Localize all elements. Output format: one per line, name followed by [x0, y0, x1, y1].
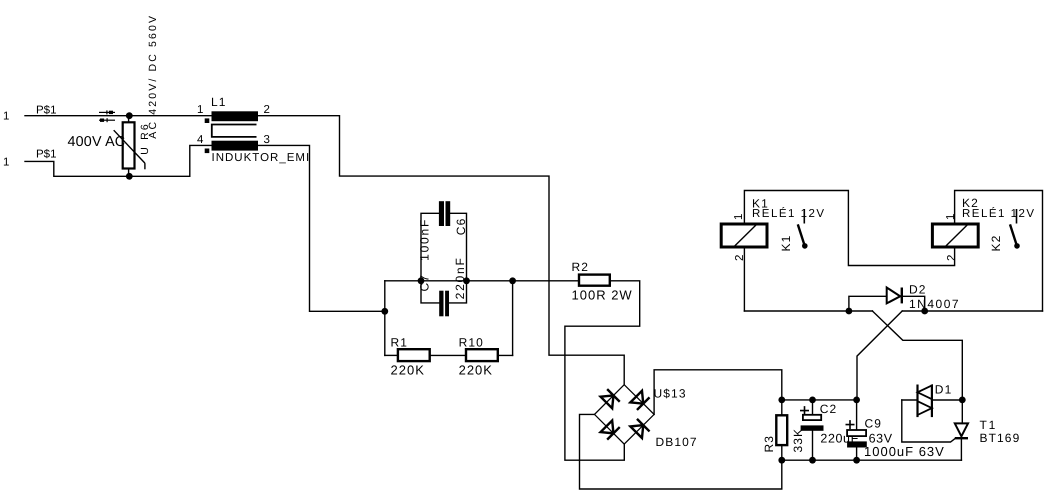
svg-text:400V AC: 400V AC [68, 134, 126, 150]
svg-text:C9: C9 [865, 416, 883, 430]
resistor R3 [776, 415, 787, 445]
junction T1 anode [959, 397, 966, 404]
wire K1 pin2 rail [744, 310, 872, 312]
switch contact K2 [1010, 209, 1020, 249]
svg-text:100R 2W: 100R 2W [572, 288, 633, 303]
connector arrows input1 [99, 110, 115, 122]
wire R1 R10 row [385, 354, 398, 356]
wire node A vertical [384, 281, 386, 356]
junction C2 bottom [809, 457, 816, 464]
bridge U$13 diamond [595, 385, 655, 444]
thyristor T1 [955, 423, 968, 438]
capacitor C2 [800, 406, 824, 431]
svg-text:1N4007: 1N4007 [909, 297, 960, 311]
junction varistor top [126, 112, 133, 119]
svg-text:RELÉ1 12V: RELÉ1 12V [752, 207, 826, 220]
wire DC+ rail [782, 399, 857, 401]
junction R3 top [778, 397, 785, 404]
wire T1 cathode [960, 439, 962, 460]
wire cap box loop [421, 213, 439, 280]
svg-text:R2: R2 [572, 260, 590, 274]
junction R10 right [509, 277, 516, 284]
svg-text:2: 2 [946, 255, 958, 261]
wire R3 leads [781, 400, 783, 415]
junction C9 bottom [853, 457, 860, 464]
junction C2 top [809, 397, 816, 404]
svg-text:33K: 33K [791, 428, 805, 453]
svg-text:U$13: U$13 [654, 387, 687, 401]
svg-text:K1: K1 [779, 235, 793, 252]
wire K2 side rail [902, 310, 1042, 312]
svg-text:R1: R1 [391, 335, 409, 349]
svg-text:2: 2 [264, 104, 270, 116]
wire capacitor bus [385, 280, 579, 282]
wire K1 pin2 [743, 247, 745, 311]
svg-text:K2: K2 [989, 235, 1003, 252]
svg-text:100nF: 100nF [417, 218, 431, 261]
svg-text:L1: L1 [211, 95, 227, 109]
junction cap box left [418, 277, 425, 284]
wire diagonal B [857, 311, 902, 400]
svg-text:D1: D1 [935, 382, 953, 396]
junction D2 anode [846, 308, 853, 315]
relay K2 coil [932, 224, 978, 247]
diac D1 [918, 385, 932, 418]
wire R2 output zigzag [565, 281, 640, 460]
wire C2 leads [812, 400, 814, 415]
wire D1 leads [902, 399, 917, 401]
svg-text:P$1: P$1 [36, 104, 56, 116]
svg-text:1: 1 [3, 157, 9, 169]
svg-text:4: 4 [197, 134, 204, 146]
wire K2 pin1 [955, 191, 1043, 312]
svg-text:1: 1 [3, 111, 9, 123]
wire diagonal A [872, 311, 962, 400]
wire D1 to T1 gate loop [902, 400, 955, 442]
wire input2 bottom [25, 145, 212, 176]
junction D2 cathode [921, 308, 928, 315]
inductor L1 [205, 111, 258, 153]
capacitor C6 plates [439, 291, 449, 317]
bridge diode D-TR [630, 391, 649, 410]
wire bridge left vertex to DC- rail [580, 414, 782, 489]
switch contact K1 [798, 209, 808, 249]
junction cap box right [463, 277, 470, 284]
svg-text:DB107: DB107 [656, 435, 698, 449]
junction R3 bottom [778, 457, 785, 464]
svg-text:1000uF 63V: 1000uF 63V [864, 444, 945, 459]
bridge diode D-BR [630, 419, 649, 438]
svg-text:1: 1 [733, 214, 745, 220]
varistor R6 [114, 116, 145, 177]
wire L1 pin3 to node A [258, 145, 385, 311]
junction varistor bottom [126, 173, 133, 180]
svg-text:R3: R3 [762, 435, 776, 453]
wire bridge right vertex to DC+ rail [654, 370, 782, 415]
junction node A [381, 308, 388, 315]
svg-text:RELÉ1 12V: RELÉ1 12V [962, 207, 1036, 220]
svg-text:AC 420V/ DC 560V: AC 420V/ DC 560V [147, 14, 159, 139]
wire K1 pin1 to K2 pin2 [744, 191, 954, 266]
wire L1 pin2 to bridge top [258, 116, 624, 385]
resistor R10 [466, 349, 498, 361]
svg-text:220K: 220K [391, 363, 425, 378]
wire DC- local rail [782, 459, 962, 461]
bridge diode D-BL [601, 420, 620, 439]
wire input1 top [25, 115, 212, 117]
svg-text:2: 2 [734, 255, 746, 261]
svg-text:220K: 220K [459, 363, 493, 378]
wire C9 leads [856, 400, 858, 430]
svg-text:BT169: BT169 [980, 431, 1021, 445]
svg-text:INDUKTOR_EMI: INDUKTOR_EMI [212, 152, 311, 164]
diode D2 [887, 288, 902, 304]
bridge diode D-TL [601, 389, 620, 408]
capacitor C7 plates [439, 201, 450, 226]
relay K1 coil [721, 224, 767, 247]
svg-text:C2: C2 [820, 402, 838, 416]
svg-text:T1: T1 [980, 418, 998, 432]
svg-text:R10: R10 [459, 335, 484, 349]
resistor R1 [398, 349, 430, 361]
svg-text:1: 1 [945, 214, 957, 220]
svg-text:3: 3 [264, 134, 270, 146]
wire D2 leads [849, 296, 887, 311]
junction C9 top [853, 397, 860, 404]
capacitor C9 [846, 420, 867, 447]
svg-text:P$1: P$1 [36, 149, 56, 161]
wire T1 anode [961, 400, 963, 424]
svg-text:1: 1 [197, 104, 203, 116]
svg-text:D2: D2 [909, 283, 927, 297]
svg-text:C6: C6 [454, 218, 468, 236]
resistor R2 [579, 275, 610, 286]
